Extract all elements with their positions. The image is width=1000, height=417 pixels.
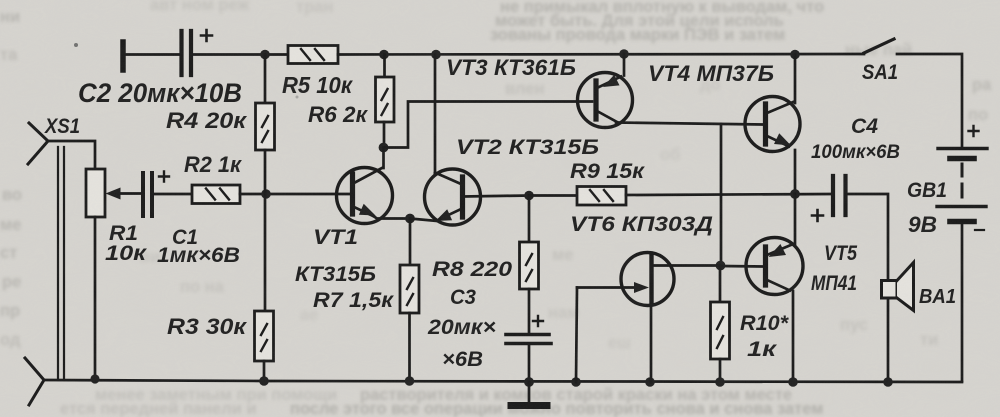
wire node to VT5 base xyxy=(721,265,763,268)
bottom rail xyxy=(44,380,962,382)
wire SA1 to corner xyxy=(897,54,962,146)
node base divider xyxy=(261,189,271,199)
wire VT3 collector to VT4 base xyxy=(616,123,762,125)
wire branch to VT5/VT6 node xyxy=(720,124,723,266)
resistor R5 xyxy=(288,46,338,64)
resistor R7 xyxy=(400,219,419,382)
transistor VT2 xyxy=(410,55,529,226)
node R3 bottom xyxy=(259,376,269,386)
resistor R2 xyxy=(192,185,240,204)
connector XS1 xyxy=(25,123,95,405)
resistor R10 xyxy=(711,266,730,383)
transistor VT3 xyxy=(578,54,633,128)
scan noise overlay xyxy=(0,0,1,1)
resistor R9 xyxy=(577,187,626,206)
node VT6 gate bottom xyxy=(571,377,581,387)
wire C4 to speaker xyxy=(847,194,888,280)
resistor R3 xyxy=(255,194,274,381)
node R10 bottom xyxy=(715,377,725,387)
transistor VT6 FET xyxy=(576,253,720,383)
node R1 bottom xyxy=(90,374,99,383)
node R4 top xyxy=(260,50,270,60)
node VT1 collector xyxy=(379,143,389,153)
wire R9 to output node xyxy=(626,194,832,195)
node VT3 emitter top xyxy=(619,49,629,59)
paper speck xyxy=(74,43,78,47)
node VT2 collector top xyxy=(431,50,441,60)
capacitor C4 xyxy=(812,176,846,221)
wire to VT3 base xyxy=(384,102,592,148)
R1 wiper arrow xyxy=(106,188,142,200)
input terminal bar xyxy=(120,42,126,70)
capacitor C2 xyxy=(182,30,213,75)
node output xyxy=(790,189,800,199)
speaker BA1 xyxy=(882,263,914,383)
resistor R8 xyxy=(520,196,539,333)
transistor VT4 xyxy=(745,55,800,195)
capacitor C3 xyxy=(506,316,551,382)
node R6 top xyxy=(379,50,389,60)
resistor R4 xyxy=(256,55,275,195)
node R7 bottom xyxy=(405,376,415,386)
wire xyxy=(125,53,179,56)
potentiometer R1 xyxy=(86,169,105,379)
wire top rail left xyxy=(193,53,288,56)
wire R2 to VT1 base xyxy=(240,193,351,196)
node VT4 collector top xyxy=(790,50,800,60)
wire node to R9 xyxy=(529,194,577,197)
transistor VT5 xyxy=(746,194,803,382)
switch SA1 lever xyxy=(864,39,894,53)
node VT2 base / R8 top xyxy=(524,191,534,201)
node VT5 base xyxy=(716,261,726,271)
node speaker bottom xyxy=(883,377,893,387)
battery GB1 xyxy=(937,126,987,381)
capacitor C1 xyxy=(143,172,169,217)
node C3 bottom / ground xyxy=(524,377,534,387)
ground xyxy=(511,382,547,406)
node emitters xyxy=(405,214,415,224)
resistor R6 xyxy=(376,55,395,148)
node VT5 collector bottom xyxy=(788,377,798,387)
node VT6 source bottom xyxy=(645,377,655,387)
wire C1 to R2 xyxy=(154,193,192,196)
wire top rail mid xyxy=(338,53,864,56)
transistor VT1 xyxy=(337,148,411,224)
